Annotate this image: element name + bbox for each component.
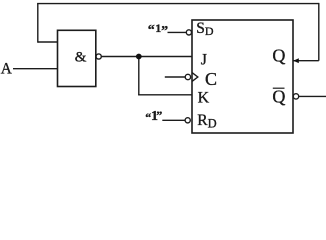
svg-text:“1”: “1” xyxy=(145,108,162,124)
RD input bubble xyxy=(185,118,190,123)
nand gate U1 body xyxy=(58,30,96,86)
Q-bar overline xyxy=(273,87,285,89)
svg-text:A: A xyxy=(1,61,12,78)
svg-text:C: C xyxy=(205,69,217,89)
wire: gate top input (node Q feedback into U1) xyxy=(38,41,58,43)
wire: input A to gate xyxy=(13,68,58,70)
C dynamic input triangle xyxy=(192,73,198,82)
wire: feedback right vertical xyxy=(318,3,320,61)
svg-text:J: J xyxy=(201,52,207,69)
svg-text:Q: Q xyxy=(272,46,285,66)
junction dot at NAND output node xyxy=(136,54,142,60)
wire: feedback left vertical xyxy=(37,4,39,43)
wire: "1" to SD input xyxy=(168,31,187,33)
wire: gate output to J input xyxy=(101,56,192,58)
wire: junction vertical to K xyxy=(138,57,140,95)
svg-text:&: & xyxy=(75,50,87,66)
wire: Q output to feedback corner xyxy=(293,60,319,62)
wire: feedback top horizontal xyxy=(37,3,319,5)
C input bubble xyxy=(185,74,190,79)
nand gate U1 output bubble xyxy=(96,54,101,59)
svg-text:Q: Q xyxy=(272,87,285,107)
wire: Q-bar output stub xyxy=(299,95,326,97)
wire: clock stub to C input xyxy=(165,76,185,78)
svg-text:K: K xyxy=(198,90,210,107)
Q-bar output bubble xyxy=(293,94,298,99)
arrowhead on Q output at box edge xyxy=(293,58,299,63)
wire: "1" to RD input xyxy=(162,119,185,121)
wire: horizontal into K input xyxy=(138,94,192,96)
flip-flop U2 body xyxy=(192,20,293,133)
SD input bubble xyxy=(186,30,191,35)
